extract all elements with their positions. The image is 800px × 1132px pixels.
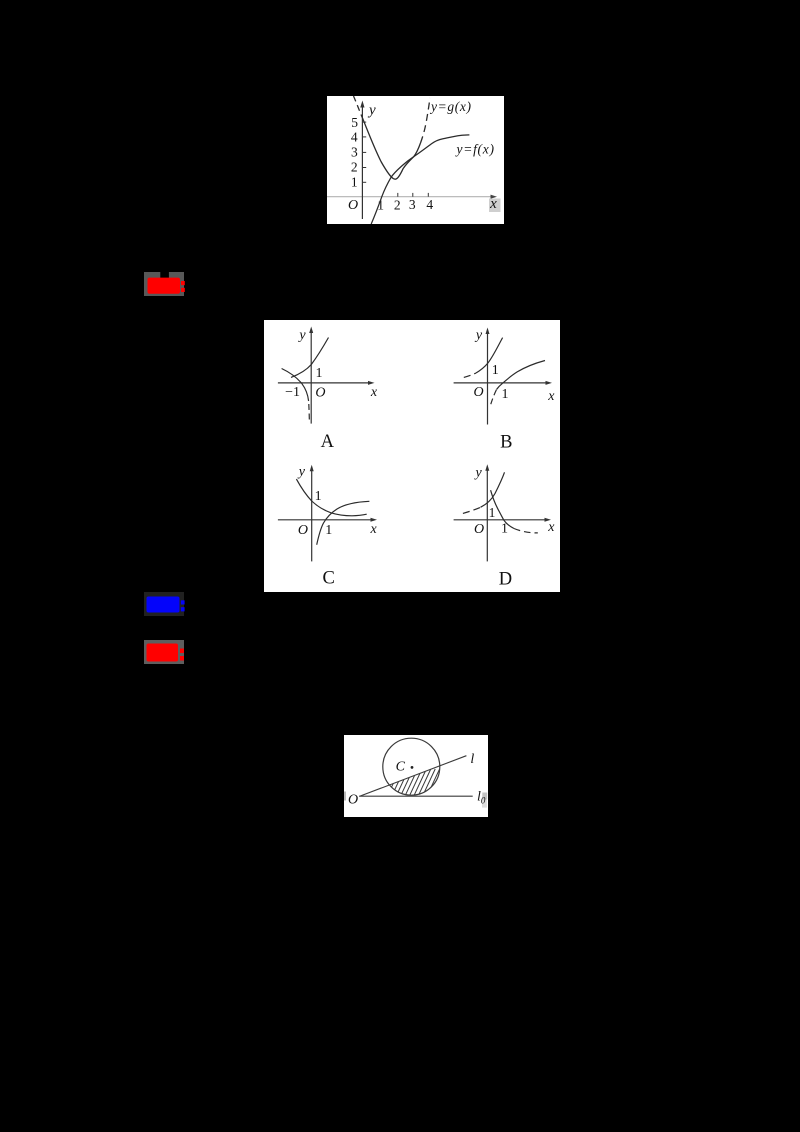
- svg-text:O: O: [474, 522, 484, 537]
- svg-text:1: 1: [502, 387, 509, 402]
- badge: blue label: [144, 592, 184, 616]
- x-axis (light gray): [327, 195, 497, 199]
- y-axis tick marks: [362, 122, 366, 182]
- svg-text:l0: l0: [477, 789, 486, 805]
- svg-text:D: D: [499, 570, 512, 590]
- C x-axis: [278, 518, 377, 522]
- B x-axis: [454, 381, 552, 385]
- svg-text:5: 5: [351, 115, 358, 130]
- svg-text:O: O: [298, 523, 308, 538]
- svg-text:y=f(x): y=f(x): [455, 142, 495, 157]
- svg-text:O: O: [474, 385, 484, 400]
- line l (secant): [359, 756, 466, 797]
- y-axis numbers 5 4 3 2 1: [351, 115, 358, 190]
- A curve logarithmic ln(-x): [282, 369, 309, 402]
- x-axis tick marks: [398, 193, 429, 197]
- D curve log base 1/2: [491, 490, 514, 528]
- svg-text:1: 1: [316, 366, 323, 381]
- A x-axis: [278, 381, 375, 385]
- D curve exponential: [481, 472, 505, 507]
- svg-text:x: x: [370, 385, 378, 400]
- svg-text:y: y: [367, 103, 376, 119]
- B y-axis: [486, 328, 490, 425]
- x-axis numbers 1 2 3 4: [377, 197, 433, 213]
- svg-text:x: x: [547, 520, 555, 535]
- box: circle C with tangent line l0 and secant line l: [344, 735, 488, 817]
- D x-axis: [454, 518, 551, 522]
- D y-axis: [485, 464, 489, 561]
- svg-text:4: 4: [351, 130, 358, 145]
- svg-text:1: 1: [351, 175, 358, 190]
- svg-text:O: O: [348, 198, 358, 213]
- C curve logarithmic: [317, 501, 370, 545]
- svg-text:B: B: [500, 433, 512, 453]
- curve y=f(x): [371, 135, 469, 224]
- svg-text:x: x: [489, 196, 497, 212]
- B curve exponential dashed left tail: [464, 373, 476, 377]
- curve y=g(x) dashed upper-right part: [421, 98, 431, 143]
- svg-text:O: O: [315, 386, 325, 401]
- gray sliver left edge: [344, 792, 346, 801]
- svg-text:1: 1: [492, 363, 499, 378]
- svg-text:1: 1: [325, 523, 332, 538]
- svg-text:3: 3: [409, 197, 416, 212]
- badge: red label 2: [144, 640, 184, 664]
- svg-text:1: 1: [489, 505, 496, 520]
- svg-text:y=g(x): y=g(x): [429, 99, 472, 114]
- svg-text:y: y: [473, 466, 482, 481]
- C curve decreasing reciprocal-like: [296, 479, 366, 516]
- box: four answer-choice graphs A B C D: [264, 320, 560, 592]
- A curve exponential: [291, 338, 329, 378]
- svg-text:2: 2: [394, 198, 401, 213]
- svg-text:l: l: [470, 752, 474, 767]
- svg-text:O: O: [348, 793, 358, 808]
- center dot: [411, 766, 414, 769]
- A y-axis: [309, 327, 313, 424]
- svg-text:2: 2: [351, 160, 358, 175]
- B curve exponential: [476, 338, 503, 373]
- svg-text:C: C: [396, 760, 406, 775]
- svg-text:3: 3: [351, 144, 358, 159]
- hatched circular segment: [386, 769, 448, 799]
- svg-text:x: x: [369, 522, 377, 537]
- svg-text:1: 1: [315, 489, 322, 504]
- B curve logarithmic dashed below axis: [491, 390, 497, 405]
- D curve log dashed below axis: [514, 529, 538, 533]
- svg-text:−1: −1: [285, 385, 300, 400]
- line l0 (horizontal tangent): [359, 795, 472, 797]
- svg-text:y: y: [297, 328, 306, 343]
- C y-axis: [310, 465, 314, 562]
- svg-text:y: y: [474, 328, 483, 343]
- A curve dashed tail: [308, 404, 311, 423]
- gray patch behind l0: [482, 793, 487, 800]
- svg-text:y: y: [297, 465, 306, 480]
- circle C: [383, 738, 440, 795]
- badge: red label 1 (answer): [144, 272, 184, 296]
- D curve exponential dashed left tail: [463, 507, 481, 513]
- y-axis: [360, 101, 364, 220]
- curve y=g(x) dashed upper-left part: [354, 96, 364, 119]
- curve y=g(x) solid middle part (parabola): [363, 119, 421, 179]
- box: top function chart y=f(x), y=g(x): [327, 96, 504, 224]
- svg-text:C: C: [323, 569, 335, 589]
- svg-text:4: 4: [426, 197, 433, 212]
- svg-text:A: A: [321, 432, 335, 452]
- svg-text:x: x: [547, 389, 555, 404]
- gray patch behind x label: [489, 199, 501, 213]
- B curve logarithmic: [497, 361, 546, 390]
